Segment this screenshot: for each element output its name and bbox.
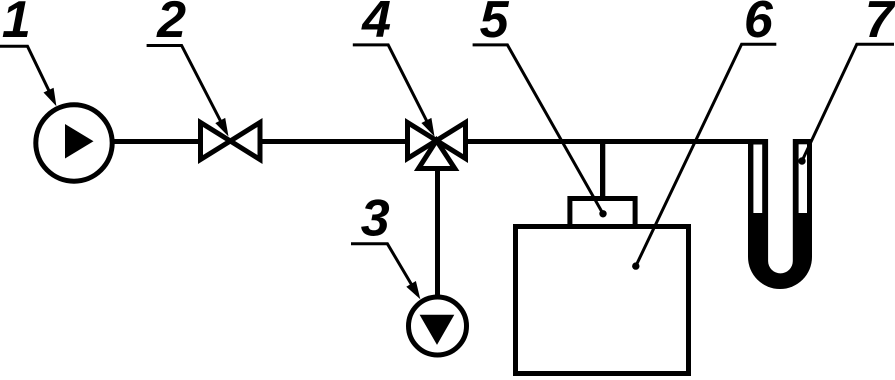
pump P3 circle [409,297,467,355]
label 2 leader [147,46,226,132]
label 1 arrowhead [44,88,57,107]
wire valve2 to valve4 [258,139,410,144]
label 7 leader [802,44,894,161]
pump P1 rotor triangle [65,124,94,159]
label 1 leader [0,46,54,101]
manometer right tube interior above liquid [799,144,807,213]
orifice box 5 [570,199,635,227]
pump P1 circle [36,105,112,181]
valve 4 bottom triangle [419,141,455,169]
manometer middle gap [768,134,793,273]
svg-text:2: 2 [156,0,186,49]
label 3 arrowhead [406,281,420,299]
pump P3 rotor triangle [420,315,455,345]
valve 2 left triangle [201,123,231,160]
manometer 7 body (U-tube black) [748,139,812,289]
svg-text:3: 3 [361,190,390,248]
label 2 arrowhead [215,118,228,137]
svg-text:7: 7 [865,0,895,49]
label 6 leader [636,44,777,266]
svg-text:5: 5 [480,0,510,49]
manometer left tube interior above liquid [753,145,762,214]
label 3 leader [351,244,418,295]
valve 4 left triangle [408,123,437,159]
wire valve4 to manometer [464,139,767,144]
svg-text:1: 1 [2,0,31,49]
label 5 end dot [599,210,606,217]
label 4 arrowhead [421,118,434,137]
label 4 leader [353,45,432,131]
valve 4 right triangle [437,123,466,159]
wire tee drop to orifice box 5 [600,142,605,198]
wire valve4 down to pump3 [435,166,440,298]
svg-text:4: 4 [361,0,391,49]
valve 2 right triangle [230,123,260,160]
tank 6 [516,227,689,374]
svg-text:6: 6 [744,0,774,49]
label 6 end dot [632,262,639,269]
label 7 end dot [798,157,805,164]
wire pump1 to valve2 [110,139,202,144]
label 5 leader [473,45,603,214]
